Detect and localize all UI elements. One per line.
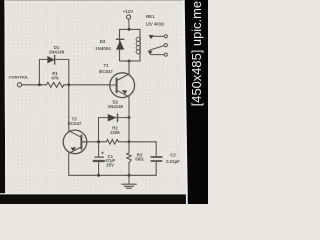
node junction column base-line [128, 140, 131, 143]
svg-text:1N4148: 1N4148 [49, 50, 65, 55]
svg-text:R2: R2 [112, 125, 118, 130]
wire bottom rail [69, 174, 157, 176]
relay coil loops [136, 37, 140, 54]
wire T3 base line [83, 141, 129, 143]
wire D1 branch right vertical [55, 59, 69, 84]
svg-text:0.22µF: 0.22µF [166, 159, 180, 164]
node CONTROL terminal [17, 83, 21, 87]
wire +12V to relay [128, 19, 130, 29]
svg-text:220k: 220k [110, 130, 120, 135]
svg-text:R1: R1 [52, 71, 58, 76]
resistor R3 [128, 142, 130, 176]
svg-text:D3: D3 [100, 39, 106, 44]
relay contact armature [164, 44, 167, 47]
paper background with grid [0, 0, 208, 204]
node junction ground [128, 174, 131, 177]
right black border [183, 0, 188, 204]
relay contact NO top [149, 35, 153, 39]
svg-text:T3: T3 [71, 116, 77, 121]
svg-text:1N4148: 1N4148 [108, 104, 124, 109]
node junction rail-left [38, 83, 41, 86]
transistor T3 [63, 130, 87, 154]
wire T1 collector [128, 61, 130, 74]
wire D2 branch left vertical [99, 118, 108, 142]
node junction base [97, 140, 100, 143]
svg-text:47k: 47k [51, 76, 59, 81]
svg-text:C2: C2 [170, 152, 176, 157]
bottom black border [0, 193, 208, 194]
node junction C1 bottom [97, 174, 100, 177]
node +12V terminal [127, 15, 131, 19]
svg-text:BC547: BC547 [99, 69, 113, 74]
svg-text:RE1: RE1 [146, 14, 155, 19]
node junction D2 right [128, 116, 131, 119]
node junction rail-right [67, 83, 70, 86]
svg-text:D1: D1 [54, 45, 60, 50]
svg-text:12V 400Ω: 12V 400Ω [145, 22, 164, 27]
svg-text:CONTROL: CONTROL [9, 75, 29, 80]
svg-text:1N4004: 1N4004 [95, 46, 111, 51]
resistor R2 [106, 140, 118, 145]
svg-text:T1: T1 [103, 63, 109, 68]
node junction relay top [128, 28, 131, 31]
diode D2 [108, 114, 116, 121]
left black border [0, 0, 5, 204]
ground [128, 175, 130, 184]
resistor R1 [46, 82, 64, 87]
relay contact NC bottom [148, 51, 152, 54]
svg-text:25V: 25V [106, 162, 114, 167]
wire D1 branch left vertical [39, 59, 47, 84]
svg-text:BC547: BC547 [68, 121, 82, 126]
capacitor C2 [151, 156, 161, 158]
svg-text:D2: D2 [112, 100, 118, 105]
wire D2 to column [116, 117, 129, 119]
svg-text:[450x485] upic.me: [450x485] upic.me [189, 1, 204, 106]
capacitor C1 [98, 142, 100, 157]
svg-text:+12V: +12V [123, 9, 133, 14]
wire control rail to T1 base [22, 84, 110, 86]
diode D3 [116, 41, 123, 50]
wire T1 emitter column [128, 97, 130, 142]
wire T3 emitter down [68, 153, 70, 175]
transistor T1 [110, 73, 135, 98]
node junction relay bottom [128, 60, 131, 63]
wire base line to C2 [129, 142, 156, 156]
diode D1 [48, 56, 55, 63]
top edge thin line [0, 0, 208, 1]
wire T3 collector column [68, 85, 70, 131]
svg-text:56Ω: 56Ω [135, 157, 144, 162]
relay RE1 coil box [120, 29, 141, 61]
